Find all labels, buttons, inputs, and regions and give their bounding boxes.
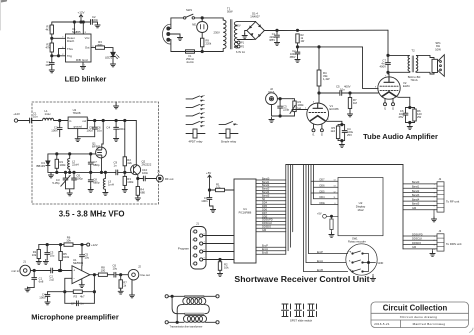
svg-text:+: + bbox=[73, 269, 75, 273]
junction bbox=[219, 258, 221, 260]
svg-text:1,4W: 1,4W bbox=[323, 77, 330, 81]
svg-text:1N4007: 1N4007 bbox=[250, 15, 260, 19]
junction bbox=[387, 54, 389, 56]
relay 4PDT contact 1 bbox=[186, 96, 205, 102]
svg-text:70mA: 70mA bbox=[410, 78, 417, 82]
svg-text:3: 3 bbox=[192, 247, 193, 249]
svg-text:Simple relay: Simple relay bbox=[221, 140, 237, 144]
svg-text:LED1: LED1 bbox=[105, 56, 112, 60]
wire output node bbox=[90, 275, 99, 304]
svg-text:DD6: DD6 bbox=[320, 185, 326, 188]
junction bbox=[176, 321, 178, 323]
regulator U1 78L08 bbox=[68, 108, 90, 129]
svg-text:Rotary encoder: Rotary encoder bbox=[348, 240, 366, 244]
junction bbox=[33, 269, 35, 271]
svg-text:5: 5 bbox=[192, 263, 193, 265]
pin row Band4 bbox=[256, 191, 286, 194]
resistor R3 divider bbox=[123, 172, 134, 188]
svg-text:RF out: RF out bbox=[165, 177, 174, 181]
svg-text:100k: 100k bbox=[127, 180, 134, 184]
bus vertical 4 bbox=[292, 165, 294, 232]
wires DB9 to U1 bbox=[203, 235, 234, 237]
wire to T2 bottom and V2 anode bbox=[388, 72, 408, 77]
ground tank left bbox=[48, 172, 53, 177]
wire U1 ground pin bbox=[78, 129, 95, 137]
ground encoder bbox=[370, 274, 375, 281]
ground bbox=[49, 68, 54, 73]
relay 4PDT contact 4 bbox=[186, 121, 205, 127]
header J2 to RF unit bbox=[403, 177, 459, 212]
filtered B+ rail bbox=[298, 46, 363, 48]
wire thre loop bbox=[59, 49, 66, 56]
bus vertical 3 bbox=[289, 165, 291, 248]
fuse F1 bbox=[185, 50, 195, 64]
svg-text:+12V: +12V bbox=[13, 112, 20, 116]
svg-text:J1: J1 bbox=[196, 222, 199, 226]
pin row Band0 bbox=[256, 177, 286, 180]
svg-text:100u: 100u bbox=[39, 296, 46, 300]
capacitor C4 decoupling bbox=[106, 121, 125, 137]
connector J1 RF out bbox=[156, 170, 173, 182]
svg-text:13: 13 bbox=[334, 186, 336, 188]
svg-text:10u: 10u bbox=[50, 254, 55, 258]
svg-text:22uH: 22uH bbox=[72, 163, 79, 167]
+12V supply symbol bbox=[77, 11, 84, 23]
bridge rectifier D1-4 bbox=[247, 12, 265, 40]
ground under C4 bbox=[114, 137, 119, 142]
svg-text:10k: 10k bbox=[66, 239, 71, 243]
svg-text:10u: 10u bbox=[113, 267, 118, 271]
pin row Band5 bbox=[256, 195, 286, 198]
resistor R3 feedback bbox=[73, 290, 85, 299]
plug earth pin to ground bbox=[170, 34, 183, 40]
svg-text:100n: 100n bbox=[51, 129, 58, 133]
wire trimmer bottom bar bbox=[66, 189, 75, 192]
svg-text:C7: C7 bbox=[71, 301, 75, 305]
junction bbox=[341, 123, 343, 125]
svg-text:DDSCLK: DDSCLK bbox=[412, 238, 422, 241]
wire R3 to LED bbox=[105, 48, 114, 53]
svg-text:10n: 10n bbox=[33, 115, 38, 119]
svg-text:R/B: R/B bbox=[76, 58, 81, 62]
relay simple coil bbox=[219, 129, 238, 144]
svg-text:1n: 1n bbox=[114, 164, 118, 168]
svg-text:4k7: 4k7 bbox=[45, 28, 50, 32]
slide switch 2 bbox=[295, 304, 304, 317]
wire cross left down bbox=[172, 296, 184, 313]
resistor R1 bbox=[55, 154, 66, 173]
resistor R2 bbox=[45, 43, 53, 53]
junction bbox=[59, 119, 61, 121]
svg-text:Band1: Band1 bbox=[412, 186, 420, 189]
ground under R7 bbox=[347, 112, 352, 117]
svg-text:400V: 400V bbox=[379, 65, 386, 69]
ground under resistor bbox=[329, 233, 334, 238]
svg-text:400V: 400V bbox=[344, 85, 351, 89]
top supply rail bbox=[39, 244, 87, 246]
svg-text:mic in: mic in bbox=[11, 269, 19, 273]
svg-text:C4: C4 bbox=[106, 126, 110, 130]
svg-text:+12V: +12V bbox=[77, 11, 84, 15]
svg-text:BF982: BF982 bbox=[92, 145, 101, 149]
relay 4PDT coil bbox=[186, 129, 205, 144]
svg-text:2016-5-21: 2016-5-21 bbox=[374, 322, 390, 326]
svg-text:Microphone preamplifier: Microphone preamplifier bbox=[31, 313, 119, 322]
ground under L3 bbox=[103, 191, 108, 196]
svg-text:DDSUPD: DDSUPD bbox=[412, 233, 423, 236]
svg-text:1mH: 1mH bbox=[108, 183, 114, 187]
svg-text:78L08: 78L08 bbox=[73, 111, 81, 115]
junction bbox=[104, 171, 106, 173]
resistor R1 bbox=[45, 25, 53, 35]
terminal right top bbox=[216, 295, 219, 298]
capacitor C1 bbox=[45, 60, 54, 67]
+5V supply bbox=[206, 171, 211, 190]
svg-text:LED blinker: LED blinker bbox=[65, 75, 107, 84]
terminal left bottom bbox=[165, 321, 168, 324]
trimmer cap C3 bbox=[52, 172, 70, 188]
svg-text:2: 2 bbox=[434, 188, 435, 190]
svg-text:SW1: SW1 bbox=[186, 8, 193, 12]
svg-text:4k7: 4k7 bbox=[80, 295, 85, 299]
node dots on rail bbox=[80, 21, 82, 23]
wire Gnd pin bbox=[82, 62, 84, 65]
svg-text:+12V: +12V bbox=[91, 243, 98, 247]
svg-text:14: 14 bbox=[334, 180, 336, 182]
svg-text:+5V: +5V bbox=[206, 171, 211, 175]
wire LED to gnd bbox=[112, 57, 114, 63]
wire top-left terminal bbox=[168, 295, 184, 297]
wire Q2 collector to rail bbox=[135, 121, 137, 165]
junction bbox=[349, 92, 351, 94]
potentiometer R3 volume bbox=[290, 99, 304, 116]
shield box dashed bbox=[32, 102, 159, 204]
junction bbox=[56, 171, 58, 173]
resistor R2 divider bbox=[123, 121, 132, 173]
svg-text:Band4: Band4 bbox=[412, 198, 420, 201]
svg-text:R3: R3 bbox=[74, 295, 78, 299]
bus vertical 2 bbox=[287, 165, 289, 251]
capacitor C4a input bbox=[51, 121, 62, 137]
pin comb U1 right bbox=[256, 165, 403, 255]
svg-text:385V: 385V bbox=[269, 39, 275, 42]
capacitor C3 bias bbox=[45, 245, 55, 260]
ground under U1 bbox=[75, 137, 80, 142]
ground under R4 bbox=[135, 196, 140, 201]
encoder wire EncP bbox=[309, 251, 348, 254]
svg-text:680p: 680p bbox=[93, 163, 100, 167]
wire secondary to bridge bbox=[237, 21, 255, 39]
shield ground top right bbox=[114, 102, 119, 109]
svg-text:230V: 230V bbox=[214, 31, 220, 35]
capacitor C8 divider bbox=[88, 172, 100, 188]
svg-text:25V: 25V bbox=[399, 115, 404, 119]
pin row Band2 bbox=[256, 184, 286, 187]
coupling capacitor C5 bbox=[319, 85, 378, 96]
wire cross right bbox=[205, 305, 210, 314]
IC U1 PIC16F886 bbox=[234, 179, 256, 263]
ground input bbox=[269, 118, 274, 123]
right bus vertical bbox=[402, 165, 404, 249]
wire R2 to filtered rail bbox=[297, 43, 299, 47]
svg-text:10W: 10W bbox=[435, 47, 441, 51]
wire V1 cathode bbox=[325, 121, 345, 143]
wire top pair to right terminal bbox=[204, 295, 216, 297]
capacitor C1 bbox=[201, 190, 213, 208]
junction bbox=[318, 92, 320, 94]
junction bbox=[296, 46, 298, 48]
resistor R6 supply bbox=[64, 236, 73, 247]
svg-text:2N2222: 2N2222 bbox=[142, 163, 152, 167]
junction bbox=[124, 171, 126, 173]
wire switch to T1 bbox=[195, 18, 224, 20]
capacitor C4 gain bbox=[39, 292, 50, 301]
junction bbox=[367, 261, 369, 263]
op-amp V+ pin bbox=[81, 266, 83, 271]
svg-text:6n8: 6n8 bbox=[39, 280, 44, 284]
ground tank bottom bbox=[67, 191, 72, 196]
junction bbox=[279, 98, 281, 100]
svg-text:220p: 220p bbox=[283, 108, 290, 112]
LED LED1 bbox=[105, 52, 119, 59]
wire R4 to V1 anode bbox=[318, 86, 319, 103]
svg-text:11: 11 bbox=[334, 197, 336, 199]
svg-text:EncA: EncA bbox=[317, 260, 323, 263]
svg-text:DDSDO: DDSDO bbox=[412, 242, 421, 245]
output transformer T2 bbox=[408, 49, 421, 83]
junction bbox=[201, 17, 203, 19]
capacitor C4 cathode bbox=[342, 125, 353, 141]
svg-text:100n: 100n bbox=[201, 199, 208, 203]
bus vertical 1 bbox=[285, 165, 287, 255]
transformer T1 secondary bbox=[234, 21, 240, 48]
junction bbox=[208, 189, 210, 191]
wire R4 feed bbox=[318, 47, 320, 70]
svg-text:Tube Audio Amplifier: Tube Audio Amplifier bbox=[363, 132, 438, 141]
svg-text:To DDS unit: To DDS unit bbox=[446, 242, 462, 246]
junction bbox=[64, 291, 66, 293]
resistor R3 bbox=[96, 40, 105, 49]
junction bbox=[330, 215, 332, 217]
junction bbox=[201, 50, 203, 52]
display row E bbox=[311, 202, 338, 205]
resistor R1 mclr bbox=[210, 183, 235, 192]
transistor Q2 bbox=[131, 160, 152, 175]
resistor R2 1k bbox=[296, 34, 305, 43]
svg-text:Transmission line transformer: Transmission line transformer bbox=[170, 325, 203, 328]
wire L1 to U1 bbox=[54, 120, 68, 122]
svg-text:10k: 10k bbox=[32, 253, 37, 257]
slide switch 1 bbox=[282, 304, 291, 317]
junction bbox=[171, 295, 173, 297]
resistor R5 bias bbox=[59, 245, 70, 271]
svg-text:NE555: NE555 bbox=[72, 30, 81, 34]
wire input bbox=[31, 270, 73, 272]
ground under C1 bbox=[210, 208, 215, 213]
triode V1 bbox=[305, 102, 339, 125]
tank top rail to gate bbox=[48, 153, 96, 155]
svg-text:1: 1 bbox=[192, 231, 193, 233]
svg-text:680p: 680p bbox=[93, 181, 100, 185]
svg-text:1mH: 1mH bbox=[45, 112, 51, 116]
speaker SP1 bbox=[432, 41, 444, 76]
svg-text:12: 12 bbox=[334, 191, 336, 193]
connector J1 mic in bbox=[11, 260, 30, 276]
resistor R2 pulldown bbox=[218, 260, 229, 273]
svg-text:J2: J2 bbox=[138, 265, 141, 269]
svg-text:BB139: BB139 bbox=[36, 164, 45, 168]
display row DD4 bbox=[314, 196, 339, 199]
varactor D1 bbox=[36, 154, 49, 173]
pin row Band1 bbox=[256, 181, 286, 184]
svg-text:5-35p: 5-35p bbox=[52, 181, 60, 185]
svg-text:1k2: 1k2 bbox=[330, 129, 335, 133]
ground under R3 bbox=[122, 188, 127, 193]
svg-text:10u: 10u bbox=[45, 63, 50, 67]
ground right of C2 bbox=[95, 23, 100, 28]
svg-text:DDE: DDE bbox=[320, 202, 326, 205]
op IC U1 NE555 bbox=[62, 27, 94, 67]
svg-text:Out: Out bbox=[85, 46, 90, 50]
svg-text:100p: 100p bbox=[77, 177, 84, 181]
svg-text:1W: 1W bbox=[301, 40, 305, 43]
svg-text:T2: T2 bbox=[411, 49, 415, 53]
svg-text:680: 680 bbox=[140, 191, 145, 195]
resistor R7 load bbox=[119, 275, 127, 290]
capacitor C7 divider bbox=[88, 154, 100, 173]
capacitor C2 series bbox=[49, 268, 54, 281]
pin row DDSCLK bbox=[256, 222, 286, 225]
filament taps P1 P2 bbox=[236, 41, 245, 54]
ground J2 bbox=[431, 210, 436, 222]
svg-text:Band5: Band5 bbox=[412, 203, 420, 206]
junction bbox=[279, 115, 281, 117]
svg-text:10k: 10k bbox=[224, 266, 229, 270]
wire Q2 emitter bbox=[138, 175, 144, 187]
relay 4PDT contact 2 bbox=[186, 104, 205, 110]
heater pins V1 bbox=[312, 124, 324, 137]
svg-text:10u: 10u bbox=[97, 129, 102, 133]
junction bbox=[387, 71, 389, 73]
slide switch 3 bbox=[308, 304, 317, 317]
pentode V2 bbox=[375, 76, 410, 100]
wire bottom coil to right terminal bbox=[206, 321, 216, 323]
pin row EncB bbox=[256, 252, 286, 255]
svg-text:ground: ground bbox=[74, 125, 83, 129]
svg-text:42k: 42k bbox=[127, 161, 132, 165]
wire Reset pin 4 bbox=[73, 22, 75, 34]
svg-text:1n: 1n bbox=[80, 301, 84, 305]
junction bbox=[93, 274, 95, 276]
inductor L3 bbox=[103, 172, 114, 191]
svg-text:480V: 480V bbox=[235, 24, 241, 28]
svg-text:GM: GM bbox=[412, 246, 416, 249]
capacitor C6 cathode bbox=[399, 108, 408, 123]
bottom rail with fuse bbox=[171, 40, 223, 52]
ground under C2 bbox=[295, 58, 300, 63]
wire B+ rail bbox=[264, 29, 388, 31]
svg-text:1: 1 bbox=[434, 184, 435, 186]
terminal left top bbox=[165, 295, 168, 298]
capacitor C5 C6 decoupling bbox=[86, 121, 102, 137]
pin row S0 bbox=[256, 198, 286, 201]
capacitor C5 supply decouple bbox=[80, 245, 90, 266]
terminal right bottom bbox=[216, 321, 219, 324]
wire C1 to gnd bbox=[51, 64, 53, 68]
pin row DD6 bbox=[256, 208, 286, 211]
resistor R4 anode load bbox=[317, 70, 330, 86]
svg-text:25V: 25V bbox=[347, 133, 352, 137]
line pair bottom bbox=[185, 313, 205, 314]
svg-text:220k: 220k bbox=[206, 42, 212, 46]
junction bbox=[94, 119, 96, 121]
rotary encoder SW1 bbox=[346, 236, 384, 275]
wire filtered rail down to V2 screen bbox=[363, 47, 379, 89]
svg-text:EL84: EL84 bbox=[403, 84, 410, 88]
wire wiper to V1 grid bbox=[292, 109, 307, 111]
wire R1 to R2 bbox=[51, 34, 53, 43]
winding bottom loops bbox=[184, 315, 207, 322]
svg-text:2W: 2W bbox=[417, 115, 422, 119]
pin row DDSDO bbox=[256, 226, 286, 229]
wire to Disch pin bbox=[52, 37, 66, 39]
op-amp U1 NE5534 bbox=[72, 258, 90, 284]
tank bottom rail bbox=[48, 171, 115, 173]
svg-text:385V: 385V bbox=[290, 56, 296, 59]
svg-text:680: 680 bbox=[98, 43, 103, 47]
svg-text:3.5 - 3.8 MHz VFO: 3.5 - 3.8 MHz VFO bbox=[59, 210, 125, 219]
ground under LED bbox=[110, 62, 115, 67]
svg-text:slo-blo: slo-blo bbox=[186, 61, 194, 64]
junction bbox=[51, 55, 53, 57]
svg-text:EncB: EncB bbox=[317, 269, 323, 272]
display row DD7 bbox=[311, 179, 338, 182]
svg-text:2: 2 bbox=[434, 240, 435, 242]
8V rail bbox=[87, 120, 136, 122]
resistor contrast bbox=[330, 216, 333, 233]
svg-text:Disch: Disch bbox=[67, 39, 75, 43]
wire Vcc pin 8 bbox=[82, 22, 84, 34]
resistor R9 220k bbox=[201, 38, 212, 47]
resistor R1 bias bbox=[32, 245, 41, 260]
svg-text:Manfred Bornimweg: Manfred Bornimweg bbox=[413, 322, 446, 326]
wire Out to R3 bbox=[91, 47, 96, 49]
wire B+ drop to T2 bbox=[388, 30, 408, 55]
svg-text:XCircuit demo drawing: XCircuit demo drawing bbox=[400, 315, 438, 319]
svg-text:RCA: RCA bbox=[269, 90, 275, 94]
capacitor C9 coupling bbox=[114, 161, 132, 175]
capacitor C10 output bbox=[142, 168, 156, 181]
feedback rail bbox=[65, 291, 95, 293]
svg-text:3: 3 bbox=[434, 192, 435, 194]
ground under C1 bbox=[274, 41, 279, 46]
ground cathode V2 bbox=[407, 125, 412, 130]
ground bridge minus bbox=[242, 31, 247, 39]
svg-text:+5V: +5V bbox=[317, 213, 322, 216]
mosfet Q1 bbox=[92, 121, 106, 158]
winding top loops bbox=[183, 298, 206, 305]
wire in- bbox=[48, 278, 95, 303]
+12V input terminal bbox=[13, 112, 29, 122]
pin row DD4 bbox=[256, 202, 286, 205]
svg-text:47k: 47k bbox=[45, 46, 50, 50]
wire Q1 source bbox=[101, 158, 103, 173]
resistor R5 cathode bbox=[330, 125, 339, 141]
svg-text:line out: line out bbox=[141, 273, 151, 277]
inductor L2 bbox=[68, 154, 79, 173]
svg-text:Gnd: Gnd bbox=[82, 58, 88, 62]
svg-text:4: 4 bbox=[192, 255, 193, 257]
